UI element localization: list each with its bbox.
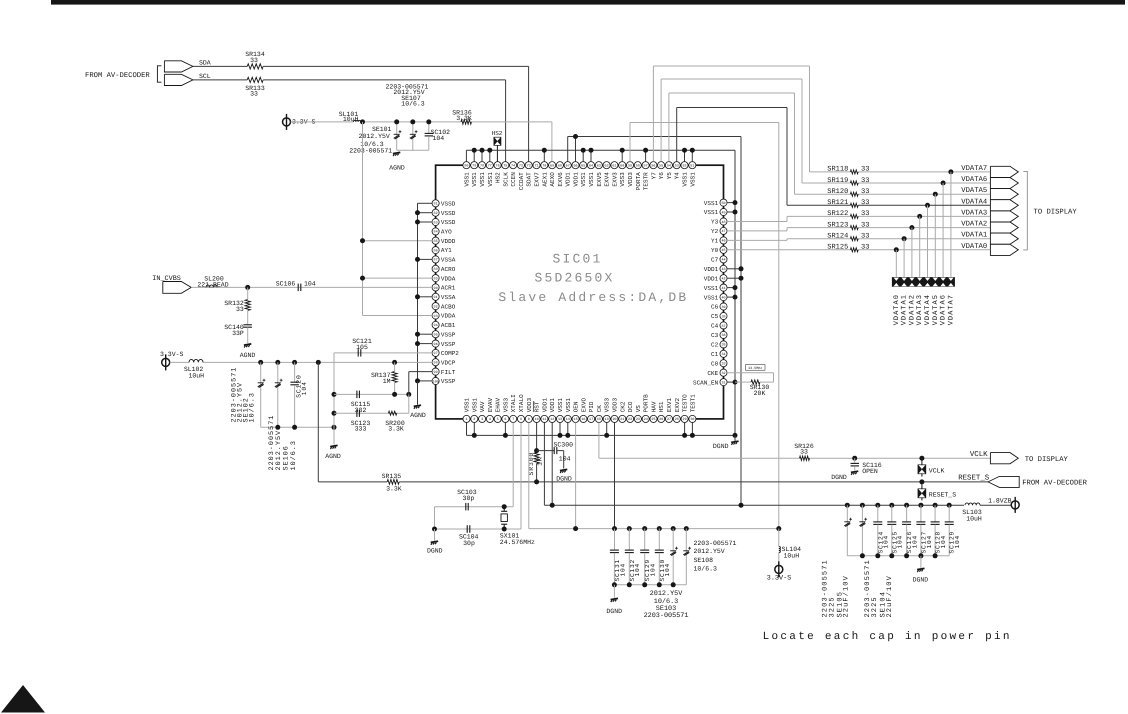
svg-text:85: 85 [434, 239, 438, 244]
capacitor SC126 [904, 503, 909, 508]
svg-text:VDATA3: VDATA3 [961, 209, 987, 217]
svg-text:63: 63 [597, 164, 601, 169]
svg-text:VSS1: VSS1 [588, 172, 595, 187]
svg-text:40: 40 [721, 295, 725, 300]
junction VSS bus pin 51 [691, 150, 693, 161]
ground DGND SC116 [851, 471, 858, 472]
svg-text:VDDA: VDDA [441, 275, 456, 282]
svg-text:104: 104 [301, 381, 308, 395]
wire VDATA3 row [727, 221, 787, 223]
svg-text:PORTA: PORTA [635, 172, 642, 190]
svg-text:C7: C7 [711, 257, 719, 264]
svg-text:60: 60 [620, 164, 624, 169]
inductor SL101 [354, 120, 361, 122]
svg-text:64: 64 [589, 164, 593, 169]
pin 44 C7 [720, 256, 727, 263]
pin 86 AY1 [432, 247, 439, 254]
svg-text:VDATA1: VDATA1 [901, 294, 909, 325]
svg-text:49: 49 [721, 210, 725, 215]
capacitor SE102 C2 [275, 360, 280, 365]
pin 9 VDD3 [525, 415, 532, 422]
pin 63 EXV5 [595, 162, 602, 169]
svg-text:EXV2: EXV2 [674, 397, 681, 412]
svg-text:VSS1: VSS1 [704, 200, 719, 207]
pin 20 VDD3 [611, 415, 618, 422]
pin 96 VSSP [432, 340, 439, 347]
wire VDD3 rail [528, 422, 530, 528]
connector arrow VDATA2 [990, 222, 1018, 233]
svg-text:104: 104 [940, 535, 947, 549]
svg-text:4: 4 [489, 417, 491, 422]
junction DGND rail pin 2 [473, 422, 475, 435]
pin 6 VSS3 [502, 415, 509, 422]
svg-text:104: 104 [897, 535, 904, 549]
svg-text:58: 58 [636, 164, 640, 169]
wire VSS1 top bus [465, 150, 467, 161]
junction DGND rail pin 29 [684, 422, 686, 435]
svg-text:19: 19 [605, 417, 609, 422]
junction DGND rail pin 13 [559, 422, 561, 435]
power symbol 3.3V-S left [162, 358, 170, 366]
wire Y7 route [652, 66, 654, 162]
svg-text:HS2: HS2 [492, 130, 503, 137]
pin 45 Y0 [720, 246, 727, 253]
svg-text:65: 65 [581, 164, 585, 169]
junction VDATA7 to ESD [948, 169, 953, 174]
resistor SR130 [735, 381, 751, 383]
connector arrow VDATA0 [990, 244, 1018, 255]
svg-text:VSS1: VSS1 [580, 172, 587, 187]
svg-text:TO DISPLAY: TO DISPLAY [1034, 208, 1078, 216]
capacitor SC132 [627, 526, 632, 531]
svg-text:10/6.3: 10/6.3 [290, 440, 298, 470]
resistor SR134 [247, 64, 263, 69]
pin 23 VS [634, 415, 641, 422]
svg-text:54: 54 [667, 164, 671, 169]
junction VSS bus pin 40 [727, 296, 735, 298]
pin 87 VSSA [432, 256, 439, 263]
svg-text:VSSA: VSSA [441, 294, 456, 301]
capacitor SC127 [918, 503, 923, 508]
svg-text:COMP2: COMP2 [441, 350, 459, 357]
junction VSS bus pin 70 [543, 150, 545, 161]
pin 3 VAV [479, 415, 486, 422]
svg-text:18: 18 [597, 417, 601, 422]
svg-text:3.3V-S: 3.3V-S [160, 351, 184, 358]
pin 100 VSSP [432, 377, 439, 384]
pin 97 COMP2 [432, 349, 439, 356]
resistor SR126 [800, 456, 810, 460]
svg-text:97: 97 [434, 351, 438, 356]
wire VDD3 pin 20 drop [614, 422, 616, 528]
junction VSS bus pin 50 [727, 202, 735, 204]
wire COMP2 row [334, 352, 432, 354]
svg-text:61: 61 [612, 164, 616, 169]
junction VDD1 bus 1.8V rail [739, 503, 744, 508]
svg-text:44: 44 [721, 258, 725, 263]
resistor SR132 [247, 287, 249, 299]
junction VDATA5 to ESD [933, 192, 938, 197]
svg-text:96: 96 [434, 342, 438, 347]
svg-text:VCLK: VCLK [970, 451, 988, 459]
svg-text:SR135: SR135 [382, 473, 402, 480]
wire SE101 ground rail [397, 149, 429, 151]
pin 64 VSS1 [587, 162, 594, 169]
svg-text:33: 33 [250, 91, 258, 98]
resistor SR300 [534, 453, 539, 464]
junction AGND bus pin 87 [418, 258, 433, 260]
pin 16 EXVO [580, 415, 587, 422]
pin 69 AEXO [549, 162, 556, 169]
svg-text:90: 90 [434, 286, 438, 291]
resistor SR123 [850, 226, 858, 230]
wire Y6 route [660, 79, 662, 162]
svg-text:DGND: DGND [427, 547, 443, 554]
resistor SR200 [388, 411, 396, 415]
svg-text:EXV3: EXV3 [611, 172, 618, 187]
power symbol 3.3V-S bottom [775, 565, 783, 573]
junction DGND rail pin 30 [691, 422, 693, 435]
svg-text:EXV6: EXV6 [557, 172, 564, 187]
resistor SR133 [247, 77, 263, 82]
capacitor SC130 [657, 526, 662, 531]
junction AGND bus pin 82 [418, 212, 433, 214]
wire 1.8V cap ground rail [847, 555, 949, 557]
svg-text:VDD1: VDD1 [565, 172, 572, 187]
capacitor SC123 [356, 409, 358, 417]
svg-text:10: 10 [535, 417, 539, 422]
svg-text:VSS1: VSS1 [464, 397, 471, 412]
junction VSS bus pin 49 [727, 211, 735, 213]
capacitor SC121 [357, 349, 359, 357]
svg-text:42: 42 [721, 277, 725, 282]
svg-text:VSS1: VSS1 [487, 172, 494, 187]
svg-text:2203-005571: 2203-005571 [349, 148, 392, 155]
svg-text:3225: 3225 [828, 596, 836, 617]
svg-text:VDATA7: VDATA7 [947, 294, 955, 325]
junction VDATA6 to ESD [941, 181, 946, 186]
svg-text:53: 53 [675, 164, 679, 169]
connector arrow VCLK [990, 453, 1018, 464]
connector arrow SDA [164, 61, 193, 72]
pin 80 VSS1 [463, 162, 470, 169]
pin 29 TESTO [681, 415, 688, 422]
svg-text:CCEN: CCEN [510, 172, 517, 187]
junction VSS bus pin 78 [481, 150, 483, 161]
svg-text:ACRO: ACRO [441, 266, 456, 273]
capacitor SC124 [875, 503, 880, 508]
junction DGND rail pin 14 [567, 422, 569, 435]
pin 8 XTALO [517, 415, 524, 422]
pin 95 VSSP [432, 331, 439, 338]
pin 10 RST [533, 415, 540, 422]
pin 47 Y2 [720, 227, 727, 234]
svg-text:VSS1: VSS1 [704, 209, 719, 216]
pin 5 EHAV [494, 415, 501, 422]
junction AGND bus pin 96 [418, 343, 433, 345]
wire SC115 row [334, 393, 409, 395]
inductor SL104 [779, 547, 781, 553]
junction VSS bus pin 65 [582, 150, 584, 161]
svg-text:CK2: CK2 [619, 401, 626, 412]
page corner triangle [1, 685, 45, 713]
connector arrow VDATA5 [990, 189, 1018, 200]
capacitor SE105 electrolytic [860, 503, 865, 508]
svg-text:VSS1: VSS1 [471, 397, 478, 412]
svg-text:VSS1: VSS1 [704, 294, 719, 301]
svg-text:21: 21 [620, 417, 624, 422]
wire XTALO row [520, 422, 522, 529]
junction VSS bus pin 64 [590, 150, 592, 161]
svg-text:FROM AV-DECODER: FROM AV-DECODER [85, 72, 150, 80]
capacitor SC120 [292, 360, 297, 365]
power symbol 3.3V-S top [283, 118, 291, 126]
capacitor SC129 [642, 526, 647, 531]
svg-text:VSS1: VSS1 [704, 285, 719, 292]
ground DGND digital bank [612, 582, 617, 587]
junction VDATA1 to ESD [902, 236, 907, 241]
svg-text:2203-005571: 2203-005571 [694, 540, 737, 547]
svg-text:93: 93 [434, 314, 438, 319]
svg-text:84: 84 [434, 230, 438, 235]
svg-text:VSS1: VSS1 [479, 172, 486, 187]
ground DGND rail [734, 435, 736, 441]
svg-text:33: 33 [250, 57, 258, 64]
svg-text:VDATA2: VDATA2 [961, 221, 987, 229]
svg-text:104: 104 [664, 563, 671, 577]
junction VDATA2 to ESD [909, 225, 914, 230]
svg-text:50: 50 [721, 201, 725, 206]
capacitor SC115 [356, 391, 358, 399]
svg-text:33: 33 [861, 233, 869, 241]
wire SCAN_EN [727, 381, 735, 383]
svg-text:VDATA0: VDATA0 [961, 243, 987, 251]
svg-text:104: 104 [619, 563, 626, 577]
bracket FROM AV-DECODER [157, 66, 161, 82]
svg-text:PORTB: PORTB [643, 394, 650, 412]
svg-text:SR125: SR125 [827, 244, 848, 252]
svg-text:88: 88 [434, 267, 438, 272]
pin 7 XTALI [510, 415, 517, 422]
pin 89 VDDA [432, 275, 439, 282]
svg-text:SCL: SCL [199, 73, 211, 80]
svg-text:87: 87 [434, 258, 438, 263]
svg-text:ACBO: ACBO [441, 303, 456, 310]
pin 52 VSS1 [681, 162, 688, 169]
pin 56 Y7 [650, 162, 657, 169]
wire SCL to pin 75 [193, 79, 247, 81]
svg-text:AGND: AGND [410, 412, 426, 419]
pin 57 TESTR [642, 162, 649, 169]
svg-text:105: 105 [356, 344, 368, 351]
svg-text:SR118: SR118 [827, 166, 848, 174]
wire comp bus vertical [333, 353, 335, 427]
capacitor SC129 [947, 503, 952, 508]
capacitor SC128 [933, 503, 938, 508]
svg-text:VDD1: VDD1 [541, 397, 548, 412]
pin 82 VSSD [432, 209, 439, 216]
svg-text:1K: 1K [537, 457, 544, 466]
svg-text:SC106: SC106 [276, 280, 296, 287]
svg-text:74: 74 [511, 164, 515, 169]
svg-text:Y2: Y2 [711, 228, 719, 235]
ESD diode array VDATA0-7 [892, 277, 955, 287]
wire FILT to SC115 [406, 392, 411, 397]
svg-text:33: 33 [861, 221, 869, 229]
svg-text:VDATA0: VDATA0 [893, 294, 901, 325]
svg-text:24.576MHz: 24.576MHz [500, 539, 535, 546]
svg-text:VDATA5: VDATA5 [932, 294, 940, 325]
svg-text:VDATA6: VDATA6 [961, 176, 987, 184]
svg-text:10uH: 10uH [343, 116, 359, 123]
svg-text:1: 1 [465, 417, 467, 422]
connector arrow RESET_S [988, 476, 1019, 487]
pin 21 CK2 [619, 415, 626, 422]
connector arrow VDATA1 [990, 233, 1018, 244]
svg-text:57: 57 [644, 164, 648, 169]
pin 12 VDD1 [549, 415, 556, 422]
pin 85 VDDD [432, 237, 439, 244]
svg-text:VDD1: VDD1 [549, 397, 556, 412]
pin 14 VSS1 [564, 415, 571, 422]
svg-text:SR122: SR122 [827, 210, 848, 218]
crystal SX101 [502, 504, 507, 509]
svg-text:68: 68 [558, 164, 562, 169]
svg-text:89: 89 [434, 276, 438, 281]
wire digital cap ground rail [614, 584, 686, 586]
junction AGND bus pin 91 [418, 296, 433, 298]
svg-text:TESTO: TESTO [682, 394, 689, 412]
svg-text:66: 66 [573, 164, 577, 169]
svg-text:92: 92 [434, 304, 438, 309]
pin 46 Y1 [720, 237, 727, 244]
wire IN_CVBS to ACR1 [191, 286, 432, 288]
svg-text:HS2: HS2 [495, 172, 502, 183]
svg-text:104: 104 [433, 135, 445, 142]
pin 99 FILT [432, 368, 439, 375]
capacitor SC103 [465, 503, 467, 511]
pin 79 VSS1 [471, 162, 478, 169]
svg-text:VDATA3: VDATA3 [916, 294, 924, 325]
wire VDATA4 row [787, 204, 851, 206]
svg-text:SE101: SE101 [372, 126, 392, 133]
svg-text:82: 82 [434, 211, 438, 216]
svg-text:104: 104 [926, 535, 933, 549]
svg-text:SR124: SR124 [827, 233, 848, 241]
svg-text:ACR1: ACR1 [441, 285, 456, 292]
junction SR137 takeoff [392, 360, 397, 365]
svg-text:VDDA: VDDA [441, 313, 456, 320]
pin 58 PORTA [634, 162, 641, 169]
pin 24 PORTB [642, 415, 649, 422]
svg-text:PID: PID [588, 401, 595, 412]
IC SIC01 body outline [436, 165, 724, 419]
junction VSS bus pin 57 [645, 150, 647, 161]
pin 91 VSSA [432, 293, 439, 300]
svg-text:TESTR: TESTR [643, 172, 650, 190]
junction VDATA0 to ESD [894, 247, 899, 252]
svg-text:76: 76 [496, 164, 500, 169]
svg-text:DCO: DCO [627, 401, 634, 412]
svg-text:CKE: CKE [707, 370, 718, 377]
junction DGND rail pin 19 [606, 422, 608, 435]
svg-text:AGND: AGND [240, 352, 256, 359]
svg-text:1.8VZB: 1.8VZB [988, 497, 1012, 504]
svg-text:TEST1: TEST1 [689, 394, 696, 412]
svg-text:DGND: DGND [606, 608, 622, 615]
junction DGND rail pin 6 [504, 422, 506, 435]
pin 73 CCDAT [517, 162, 524, 169]
svg-text:VSSA: VSSA [441, 257, 456, 264]
svg-text:Y0: Y0 [711, 247, 719, 254]
pin 60 VSS3 [619, 162, 626, 169]
svg-text:51: 51 [690, 164, 694, 169]
svg-text:33: 33 [236, 306, 244, 313]
svg-text:SR120: SR120 [827, 188, 848, 196]
svg-text:11: 11 [542, 417, 546, 422]
svg-text:VSS1: VSS1 [557, 397, 564, 412]
pin 39 C6 [720, 303, 727, 310]
svg-text:80: 80 [464, 164, 468, 169]
svg-text:1M: 1M [383, 378, 391, 385]
wire VDATA1 row [727, 239, 787, 241]
wire VDD1 1.8V rail [543, 422, 545, 505]
svg-text:VSS1: VSS1 [682, 172, 689, 187]
capacitor SC104 [466, 525, 468, 533]
pin 22 DCO [627, 415, 634, 422]
svg-text:33: 33 [861, 188, 869, 196]
svg-text:29: 29 [683, 417, 687, 422]
pin 72 SDAT [525, 162, 532, 169]
svg-text:RST: RST [534, 401, 541, 412]
svg-text:52: 52 [682, 164, 686, 169]
pin 66 VDD1 [572, 162, 579, 169]
svg-text:3.3K: 3.3K [386, 486, 402, 493]
pin 30 TEST1 [689, 415, 696, 422]
resistor SR118 [850, 170, 858, 174]
junction VSS bus pin 77 [489, 150, 491, 161]
svg-text:C5: C5 [711, 313, 719, 320]
svg-text:VS: VS [635, 405, 642, 413]
svg-text:S5D2650X: S5D2650X [534, 271, 614, 286]
svg-text:70: 70 [542, 164, 546, 169]
pin 77 VSS1 [486, 162, 493, 169]
pin 93 VDDA [432, 312, 439, 319]
ground AGND mid [417, 381, 419, 405]
svg-text:VSSD: VSSD [441, 219, 456, 226]
svg-text:XTALO: XTALO [518, 394, 525, 412]
svg-text:DGND: DGND [913, 576, 929, 583]
svg-text:VSS1: VSS1 [463, 172, 470, 187]
svg-text:26: 26 [659, 417, 663, 422]
wire DGND rail [466, 422, 468, 435]
svg-text:DGND: DGND [831, 474, 847, 481]
junction VSS bus pin 41 [727, 287, 735, 289]
svg-text:EXV1: EXV1 [666, 397, 673, 412]
pin 15 OEN [572, 415, 579, 422]
ground AGND SE101 [393, 152, 400, 153]
inductor SL102 [189, 359, 203, 362]
pin 33 C0 [720, 360, 727, 367]
svg-text:10uH: 10uH [784, 552, 800, 559]
capacitor SC131 [614, 529, 616, 550]
svg-text:VDD1: VDD1 [704, 275, 719, 282]
svg-text:VSS1: VSS1 [565, 397, 572, 412]
svg-text:2203-005571: 2203-005571 [644, 612, 689, 620]
resistor SR122 [850, 214, 858, 218]
svg-text:VCLK: VCLK [929, 468, 945, 475]
wire analog cap ground rail [261, 426, 334, 428]
